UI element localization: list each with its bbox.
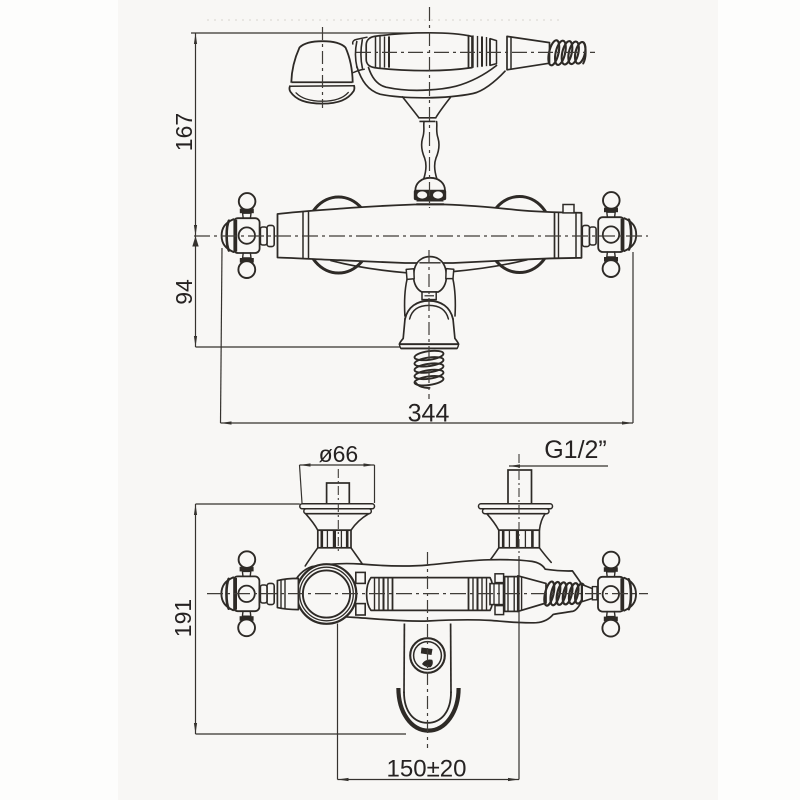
dim o66 left extension <box>300 465 303 503</box>
aerator mark <box>421 648 433 656</box>
shower barrel plan <box>367 578 494 611</box>
right inlet centerline <box>518 454 520 556</box>
spout outlet inner <box>404 692 451 723</box>
ring clamp tab bottom <box>356 604 365 615</box>
ring clamp tab top <box>356 572 365 583</box>
svg-text:ø66: ø66 <box>319 441 359 467</box>
right bonnet circle <box>487 197 552 273</box>
clamp tab right bottom <box>495 606 504 615</box>
stem ball joint <box>415 178 445 191</box>
cradle trumpet <box>403 97 451 118</box>
head centerline <box>322 27 324 108</box>
head-handle link <box>355 42 357 68</box>
shower head face <box>290 86 355 104</box>
dimension line 167-94 vertical <box>195 33 197 347</box>
shower axis centerline <box>356 51 595 53</box>
left bell taper <box>306 514 369 531</box>
spout mid block <box>422 292 436 300</box>
ring mid <box>300 567 354 621</box>
arrowhead 191 top <box>194 504 197 515</box>
barrel left rings <box>375 36 377 67</box>
left cross handle <box>233 218 259 253</box>
cradle collar edge <box>505 577 518 612</box>
dimension 191 bottom extension <box>196 733 407 735</box>
aerator inner <box>414 642 442 670</box>
right flange <box>479 504 553 509</box>
dimension 167 top extension line <box>191 32 430 34</box>
left bonnet circle <box>306 197 371 273</box>
arrowhead G1/2 <box>509 464 520 467</box>
left stem discs plan <box>267 583 274 604</box>
arrowhead 344 right <box>622 421 633 424</box>
spout side tab right <box>446 269 454 279</box>
left escutcheon plan <box>277 578 298 609</box>
hose end cone <box>582 585 592 602</box>
dimension 191 top extension <box>196 503 300 505</box>
aerator outer <box>410 638 445 673</box>
dimension line 344 <box>221 422 634 424</box>
spout side tab left <box>406 269 414 280</box>
spout arch inner <box>410 305 449 319</box>
cradle stem baluster <box>422 122 439 179</box>
dim o66 line <box>300 464 375 466</box>
scan page area <box>118 0 718 800</box>
spout hose coil <box>414 349 444 362</box>
spout arch outer <box>405 301 453 319</box>
hose cone <box>507 36 550 69</box>
shower head rim <box>290 82 354 86</box>
dim o66 right extension <box>374 465 376 503</box>
body under-sweep right <box>453 260 528 272</box>
dimension 150 line <box>338 779 520 781</box>
arrowhead 167 top <box>194 33 197 44</box>
barrel plan left rings <box>374 578 376 610</box>
barrel plan right rings <box>468 578 470 610</box>
dimension 344 right extension line <box>632 252 634 423</box>
left stem discs <box>267 225 274 246</box>
cradle fork outer <box>357 67 505 98</box>
mixer body barrel <box>278 205 582 264</box>
arrowhead 150 right <box>508 778 519 781</box>
dimension 344 left extension line <box>221 248 223 423</box>
lower spout centerline <box>427 552 429 748</box>
spout outlet outer <box>398 688 458 731</box>
hose cone plan <box>518 576 546 612</box>
hose coil plan <box>542 581 556 607</box>
ring inner <box>303 570 350 617</box>
svg-text:150±20: 150±20 <box>387 756 467 783</box>
arrowhead 94 bottom <box>194 336 197 347</box>
svg-text:191: 191 <box>170 599 196 637</box>
svg-text:167: 167 <box>171 113 197 151</box>
spout bell body <box>399 319 458 344</box>
spout bottom band <box>399 343 458 345</box>
stem collar base <box>417 200 444 202</box>
arrowhead o66 right <box>364 463 375 466</box>
scan artifact dotted line <box>207 19 562 21</box>
svg-text:G1/2”: G1/2” <box>544 436 607 464</box>
dimension 150 right extension <box>518 556 520 780</box>
dimension 150 left extension <box>337 624 339 780</box>
shower head bell <box>291 41 352 82</box>
right nut flare <box>488 548 552 564</box>
arrowhead 344 left <box>221 421 232 424</box>
left nut flare <box>305 548 364 566</box>
cradle fork inner <box>369 66 497 91</box>
left escutcheon lines <box>302 212 304 259</box>
spout centerline <box>428 250 430 399</box>
left flange <box>300 504 375 509</box>
stem collar band <box>414 190 446 200</box>
spout onion <box>414 257 447 292</box>
arrowhead 191 bottom <box>194 723 197 734</box>
right inlet stub <box>508 470 532 505</box>
right stem discs <box>582 225 589 246</box>
right stem plan <box>592 587 597 600</box>
diverter stub <box>563 205 574 213</box>
leader G1/2 <box>509 465 608 467</box>
left cross handle plan <box>233 576 259 611</box>
clamp tab right top <box>495 574 504 583</box>
barrel neck plan <box>490 584 504 605</box>
arrowhead o66 left <box>300 463 311 466</box>
right bell taper <box>487 514 545 531</box>
right nut <box>499 530 540 548</box>
left inlet stub <box>327 483 350 505</box>
dimension 191 line <box>195 504 197 734</box>
hose corrugation <box>546 39 561 66</box>
spout upper sides <box>405 279 456 316</box>
barrel right rings <box>468 35 470 68</box>
right cross handle <box>598 217 624 252</box>
barrel end cap <box>490 39 497 66</box>
arrowhead 150 left <box>338 778 349 781</box>
spout tube <box>404 623 451 695</box>
lower body outline <box>292 560 581 623</box>
right cap lines <box>554 212 556 258</box>
ring outer <box>297 564 357 624</box>
main axis centerline <box>194 235 648 237</box>
left inlet centerline <box>337 469 339 552</box>
shower handle barrel <box>366 33 472 71</box>
svg-text:94: 94 <box>171 279 197 305</box>
lower axis centerline <box>207 593 648 595</box>
body under-sweep left <box>331 261 407 273</box>
left nut <box>318 530 351 548</box>
dimension 94 bottom extension line <box>196 346 401 348</box>
right cross handle plan <box>598 577 624 612</box>
cradle centerline <box>429 7 431 208</box>
arrowheads at centerline <box>194 225 197 236</box>
svg-text:344: 344 <box>408 400 450 428</box>
